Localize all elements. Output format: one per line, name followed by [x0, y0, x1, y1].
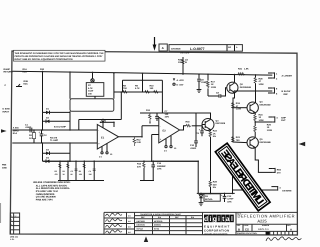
svg-text:2N3634: 2N3634 [154, 224, 161, 226]
wire E1 feedback [79, 118, 122, 122]
resistor R10 [150, 84, 159, 93]
svg-text:B SLOW: B SLOW [282, 90, 291, 93]
svg-text:EIA: EIA [158, 216, 161, 218]
svg-text:C12: C12 [227, 195, 231, 198]
resistor R12 [133, 137, 141, 146]
input signal labels [2, 108, 20, 169]
svg-text:1.5K: 1.5K [244, 67, 249, 70]
wire sub rail y80 [123, 78, 163, 82]
svg-text:B: B [238, 228, 240, 231]
svg-text:150: 150 [150, 87, 154, 90]
svg-text:g: g [213, 215, 217, 223]
svg-text:R19: R19 [236, 102, 240, 105]
wire mid chain x233 [231, 102, 235, 142]
svg-text:82: 82 [71, 173, 73, 175]
svg-text:4.7MF: 4.7MF [227, 198, 233, 201]
wire riser x232.5 [231, 172, 235, 193]
right connector EXTERN [233, 186, 292, 192]
svg-text:3 6: 3 6 [164, 150, 167, 152]
svg-text:R21: R21 [238, 67, 242, 70]
svg-text:+: + [39, 131, 41, 134]
svg-text:1K: 1K [63, 173, 65, 175]
svg-text:E2: E2 [163, 129, 166, 132]
svg-text:4-6: 4-6 [128, 231, 131, 233]
svg-text:IN754A: IN754A [137, 228, 144, 230]
svg-text:750: 750 [236, 139, 240, 142]
resistor R25 [254, 123, 272, 137]
svg-text:R14: R14 [137, 163, 141, 166]
svg-text:E2C: E2C [24, 83, 28, 86]
svg-text:OHMS/JUMPERS: OHMS/JUMPERS [36, 193, 55, 196]
wire lower bus y161 [43, 159, 199, 163]
capacitor C8 [208, 88, 227, 98]
svg-text:A PL: A PL [10, 238, 14, 240]
revision strip arrow [153, 37, 157, 51]
svg-text:C6: C6 [201, 78, 204, 81]
wire Q2 emitter chain [233, 92, 235, 102]
svg-text:R10: R10 [150, 84, 154, 87]
resistor R23 [232, 136, 240, 142]
svg-text:1K: 1K [211, 83, 214, 86]
ground symbol C6 [197, 90, 202, 93]
svg-text:d: d [204, 215, 208, 223]
svg-text:E1: E1 [101, 136, 104, 139]
svg-text:6: 6 [276, 88, 277, 91]
svg-text:EXTERN: EXTERN [282, 189, 291, 192]
svg-text:t: t [222, 215, 224, 223]
svg-text:47: 47 [259, 80, 261, 83]
right margin arrow (zone) [299, 142, 306, 146]
svg-text:D2: D2 [46, 117, 49, 120]
right connector AMP OUT [255, 116, 286, 122]
svg-text:IN754A: IN754A [205, 198, 213, 201]
revision table bottom left [10, 213, 19, 234]
svg-text:Q'S ARE MC30909: Q'S ARE MC30909 [36, 196, 56, 199]
svg-text:A LOWER: A LOWER [282, 74, 292, 77]
wire rail drop x183 [181, 57, 185, 74]
terminal RAMP RETURN label [4, 68, 45, 73]
wire drop x122.5 [121, 80, 125, 92]
svg-text:220: 220 [213, 183, 217, 186]
conversion chart [135, 213, 203, 234]
svg-text:D3: D3 [46, 148, 49, 151]
svg-text:47: 47 [236, 105, 238, 108]
svg-text:-: - [98, 130, 99, 133]
svg-text:1K: 1K [29, 137, 32, 140]
resistor R2 [29, 130, 36, 143]
title cell [237, 213, 295, 223]
svg-text:C8: C8 [216, 91, 219, 94]
svg-text:C: C [5, 84, 7, 87]
svg-text:D -15V: D -15V [177, 84, 184, 87]
svg-text:10: 10 [174, 147, 176, 149]
svg-text:CODE: CODE [244, 225, 249, 227]
svg-text:.01MF: .01MF [201, 81, 207, 84]
svg-text:1: 1 [276, 73, 277, 76]
wire E1 compensation [100, 122, 115, 128]
svg-text:CHANGE: CHANGE [171, 48, 181, 51]
svg-text:ALL RESISTORS ARE 1/4W/5%: ALL RESISTORS ARE 1/4W/5% [36, 187, 70, 190]
svg-text:A225-0-1: A225-0-1 [258, 228, 269, 231]
right connector B [268, 87, 290, 95]
svg-text:PINS ARE 74P4: PINS ARE 74P4 [36, 198, 53, 201]
svg-text:DEC6534D: DEC6534D [260, 103, 271, 106]
svg-text:4.7K: 4.7K [135, 87, 140, 90]
svg-text:R24: R24 [259, 113, 263, 116]
svg-text:R22: R22 [213, 130, 217, 133]
svg-text:TRANSISTOR & DIODE CONVERSION: TRANSISTOR & DIODE CONVERSION CHART [140, 213, 181, 215]
capacitor C12 polarized [221, 193, 234, 203]
svg-text:DEC: DEC [175, 216, 179, 218]
svg-text:R4 470: R4 470 [50, 136, 57, 139]
svg-text:A: A [162, 46, 164, 50]
notice box [14, 50, 106, 61]
svg-text:D SAW: D SAW [3, 108, 10, 111]
wire E2 output to Q3 [180, 126, 186, 130]
svg-text:A: A [236, 46, 238, 48]
wire resistor chain y92 [114, 90, 162, 94]
signature table [104, 212, 135, 234]
resistor R8 [123, 84, 128, 93]
svg-text:A: A [290, 228, 292, 231]
svg-text:4-6: 4-6 [128, 220, 131, 222]
svg-text:MPS3009: MPS3009 [154, 220, 162, 222]
resistor R17 [207, 80, 217, 96]
wire E1 output [119, 135, 143, 139]
svg-text:330: 330 [89, 173, 92, 175]
svg-text:C2: C2 [44, 134, 47, 137]
svg-text:DEC6534: DEC6534 [137, 224, 145, 226]
svg-text:3 6: 3 6 [99, 156, 102, 158]
svg-text:DEC3009: DEC3009 [137, 220, 145, 222]
ground symbol D5 [199, 203, 204, 206]
resistor R24 [254, 112, 264, 126]
svg-text:EQUIPMENT: EQUIPMENT [204, 225, 230, 228]
svg-text:A SIG: A SIG [13, 127, 19, 130]
svg-text:2: 2 [105, 120, 106, 122]
resistor R28 [209, 181, 217, 194]
wire rail drop at x42.5 [41, 72, 45, 113]
resistor R14 [137, 161, 154, 180]
svg-text:TL AMP: TL AMP [50, 139, 58, 142]
wire top rail [13, 71, 273, 75]
resistor R13 [146, 109, 151, 124]
svg-text:C: C [11, 224, 12, 226]
svg-text:10%: 10% [157, 168, 161, 171]
diode D3 [43, 148, 71, 155]
svg-text:C1: C1 [25, 123, 28, 126]
op-amp E1 [97, 119, 118, 158]
wire pot stub [91, 72, 95, 78]
svg-text:R23: R23 [236, 136, 240, 139]
svg-text:Q5: Q5 [260, 138, 263, 141]
svg-text:WF: WF [228, 46, 231, 48]
wire input 2 [12, 141, 97, 145]
svg-text:CHK DATE: CHK DATE [180, 52, 189, 54]
svg-text:R12: R12 [137, 138, 141, 141]
svg-text:2.2K: 2.2K [137, 141, 142, 144]
svg-text:R3B: R3B [24, 80, 28, 83]
resistor R16 [186, 121, 203, 127]
svg-text:REV.: REV. [287, 225, 291, 227]
sheet row [237, 231, 293, 234]
svg-text:2: 2 [276, 77, 277, 80]
wire rail drop x208 R17 [206, 74, 210, 80]
transistor Q5 [247, 137, 271, 148]
revision strip ECO box A [159, 44, 167, 51]
wire drop x162.4 [160, 80, 164, 113]
wire clamp verticals upper [41, 112, 45, 130]
svg-text:47K: 47K [137, 165, 141, 168]
svg-text:INPUT: INPUT [3, 110, 10, 113]
svg-text:D4: D4 [46, 156, 49, 159]
svg-text:390MMF: 390MMF [157, 165, 166, 168]
diode D1 [43, 108, 71, 115]
svg-text:A +10V: A +10V [177, 79, 184, 82]
svg-text:470: 470 [277, 171, 281, 174]
right connector A [268, 72, 292, 80]
svg-text:10: 10 [110, 153, 112, 155]
wire rail drop at x70 [68, 72, 72, 99]
right connector C [269, 168, 281, 174]
svg-text:DEC3009: DEC3009 [216, 122, 226, 125]
svg-text:UNLESS OTHERWISE INDICATED:: UNLESS OTHERWISE INDICATED: [33, 181, 71, 184]
svg-text:8: 8 [276, 92, 277, 95]
capacitor C2 polarized [39, 130, 47, 143]
svg-text:DEC6534B: DEC6534B [260, 141, 271, 144]
svg-text:.01MF: .01MF [190, 147, 196, 150]
left margin arrow (zone) [1, 129, 7, 133]
svg-text:+: + [160, 138, 162, 141]
svg-text:A225: A225 [257, 219, 266, 223]
svg-text:B: B [11, 219, 12, 221]
svg-text:ALL CAPS ARE MFD 50V/5%: ALL CAPS ARE MFD 50V/5% [36, 184, 67, 187]
transistor Q2 [227, 82, 251, 93]
svg-text:R28: R28 [213, 181, 217, 184]
svg-text:+: + [221, 194, 223, 197]
terminal E2C stub [5, 80, 28, 87]
svg-text:R26: R26 [259, 77, 263, 80]
svg-text:EIA: EIA [191, 216, 194, 218]
svg-text:CIRCUITS ARE PROPRIETARY IN NA: CIRCUITS ARE PROPRIETARY IN NATURE AND S… [15, 55, 103, 58]
transistor Q4 [247, 101, 271, 114]
compensation network hanging resistors [55, 161, 105, 180]
tiny text under frame left [10, 236, 18, 241]
wire E2 top rail y113 [140, 111, 211, 115]
svg-text:+: + [199, 128, 201, 131]
svg-text:L-O-8977: L-O-8977 [190, 47, 205, 51]
svg-text:100: 100 [178, 61, 182, 64]
wire rail drop x142.5 [141, 73, 145, 92]
wire Q2 collector [233, 75, 237, 83]
svg-text:1/2W: 1/2W [259, 119, 264, 122]
svg-text:PB5: PB5 [2, 164, 6, 167]
svg-text:5%: 5% [213, 135, 216, 138]
svg-text:D5: D5 [205, 195, 208, 198]
svg-text:CCW: CCW [88, 90, 93, 93]
svg-text:+: + [98, 143, 100, 146]
svg-text:R5: R5 [55, 170, 57, 172]
sheet border frame [10, 51, 297, 235]
svg-text:i: i [218, 215, 220, 223]
svg-text:4-6: 4-6 [128, 226, 131, 228]
svg-text:DRB 104: DRB 104 [10, 236, 18, 238]
svg-text:D1: D1 [46, 108, 49, 111]
svg-text:R7: R7 [88, 84, 91, 87]
svg-text:Q3: Q3 [216, 119, 219, 122]
svg-text:4: 4 [276, 116, 277, 119]
zener diode D5 [199, 193, 220, 202]
svg-text:CS: CS [245, 228, 249, 231]
scan edge artifact left [0, 203, 2, 223]
wire zener bus y193 [197, 191, 235, 195]
svg-text:PRINTED CIRCUIT REV.: PRINTED CIRCUIT REV. [237, 232, 257, 234]
svg-text:R'S GREY ARE 7444: R'S GREY ARE 7444 [36, 190, 58, 193]
capacitor C6 with ground [197, 78, 207, 89]
label R4 [50, 136, 58, 141]
svg-text:SIZE: SIZE [237, 225, 241, 227]
svg-text:RETURN: RETURN [4, 71, 13, 74]
svg-text:GND: GND [2, 166, 7, 169]
svg-text:C5: C5 [71, 170, 73, 172]
svg-text:LIMITED RELEASE: LIMITED RELEASE [219, 148, 266, 207]
svg-text:4-6: 4-6 [128, 215, 131, 217]
resistor R26 [254, 77, 264, 103]
svg-text:1/2W: 1/2W [259, 83, 264, 86]
svg-text:E3 DU AMP: E3 DU AMP [54, 126, 66, 129]
arrow under frame [144, 236, 148, 242]
svg-text:12: 12 [15, 215, 17, 217]
svg-text:W: W [185, 61, 187, 64]
wire Q5 base [233, 140, 247, 145]
svg-text:REF: REF [284, 93, 289, 96]
svg-text:E1A: E1A [13, 132, 17, 135]
svg-text:OUT: OUT [281, 119, 286, 122]
svg-text:R25: R25 [267, 123, 271, 126]
svg-text:DEFLECTION AMPLIFIER: DEFLECTION AMPLIFIER [238, 214, 295, 218]
svg-text:R3: R3 [79, 170, 81, 172]
svg-text:R17: R17 [211, 80, 215, 83]
svg-text:1/2W: 1/2W [267, 129, 272, 132]
signature handwriting bottom right [266, 237, 301, 241]
svg-text:C7: C7 [165, 110, 168, 113]
svg-text:AMP: AMP [281, 116, 286, 119]
number row [236, 224, 297, 231]
svg-text:R30: R30 [40, 68, 44, 71]
diode D2 [43, 117, 71, 124]
resistor R19 [232, 102, 242, 110]
wire rail drop x255.5 R26 [254, 75, 258, 78]
wire bend to zener bus [153, 161, 198, 193]
svg-text:10%: 10% [227, 200, 231, 203]
svg-text:750: 750 [123, 87, 127, 90]
capacitor C7 [155, 110, 169, 121]
potentiometer R7 [86, 79, 104, 99]
notes block [33, 181, 71, 201]
svg-text:R36: R36 [178, 58, 182, 61]
svg-text:15: 15 [267, 126, 269, 129]
svg-text:R9: R9 [135, 84, 138, 87]
wire input 1 [12, 128, 97, 132]
svg-text:R2: R2 [29, 134, 32, 137]
svg-text:Q4: Q4 [260, 101, 263, 104]
resistor R21 on rail [238, 67, 249, 75]
svg-text:C4: C4 [89, 170, 91, 172]
wire Q5 emitter to connector [255, 147, 273, 172]
svg-text:R1A: R1A [23, 68, 28, 71]
wire clamp verticals lower [41, 143, 45, 161]
svg-text:DEC6534B: DEC6534B [240, 86, 251, 89]
svg-text:120: 120 [165, 113, 169, 116]
capacitor C10 [190, 113, 198, 149]
wire rail drop x113.9 [112, 73, 116, 99]
svg-text:THIS SCHEMATIC IS FURNISHED ON: THIS SCHEMATIC IS FURNISHED ONLY FOR TES… [15, 52, 104, 55]
svg-text:4: 4 [279, 186, 280, 189]
diode D4 [43, 156, 71, 163]
svg-text:10: 10 [259, 116, 261, 119]
title block outline [104, 212, 297, 234]
wire to E2 inputs [140, 126, 144, 137]
svg-text:1K: 1K [213, 132, 216, 135]
svg-text:R13: R13 [146, 109, 150, 112]
svg-text:A: A [11, 215, 12, 217]
capacitor C1 [25, 123, 32, 132]
svg-text:10%: 10% [165, 116, 169, 119]
op-amp E2 [159, 117, 180, 152]
svg-text:RIGHT 1969 BY DIGITAL EQUIPMEN: RIGHT 1969 BY DIGITAL EQUIPMENT CORPORAT… [15, 58, 73, 61]
svg-text:CORPORATION: CORPORATION [204, 229, 230, 232]
svg-text:-: - [160, 125, 161, 128]
wire Q2 emitter to right rail [235, 89, 273, 93]
resistor R31 top [178, 58, 188, 65]
svg-text:DEC: DEC [141, 216, 145, 218]
svg-text:i: i [209, 215, 211, 223]
svg-text:4.7K: 4.7K [88, 87, 93, 90]
power terminals +10V [173, 78, 184, 86]
svg-text:NUMBER: NUMBER [262, 225, 269, 227]
svg-text:a: a [226, 215, 230, 223]
wire Q4 base [233, 106, 247, 110]
svg-text:l: l [231, 215, 233, 223]
svg-text:C14: C14 [157, 162, 161, 165]
capacitor C14 [151, 161, 165, 180]
svg-text:R6: R6 [63, 170, 65, 172]
svg-text:IN754: IN754 [154, 228, 159, 230]
svg-text:1/2W: 1/2W [211, 86, 216, 89]
svg-text:MAYNARD, MASSACHUSETTS: MAYNARD, MASSACHUSETTS [204, 233, 227, 235]
svg-text:Q2: Q2 [240, 83, 243, 86]
svg-text:47K: 47K [55, 173, 58, 175]
digital logo [204, 215, 234, 235]
svg-text:10K: 10K [79, 173, 82, 175]
svg-text:R16: R16 [186, 121, 190, 124]
svg-text:R64: R64 [277, 169, 281, 172]
LIMITED RELEASE stamp [215, 143, 270, 211]
svg-text:RAMP: RAMP [4, 68, 11, 71]
svg-text:5%: 5% [213, 186, 216, 189]
svg-text:R8: R8 [123, 84, 126, 87]
resistor R22 [209, 130, 217, 181]
svg-text:CW: CW [88, 92, 92, 95]
svg-text:1/2: 1/2 [185, 58, 188, 61]
resistor R9 [135, 84, 150, 93]
delay network box [70, 99, 114, 112]
capacitor C9 polarized [196, 126, 204, 137]
wire rail drop x199 C6 [197, 74, 201, 78]
svg-text:C10: C10 [190, 144, 194, 147]
transistor Q3 [202, 113, 225, 131]
revision strip description box [169, 45, 242, 54]
